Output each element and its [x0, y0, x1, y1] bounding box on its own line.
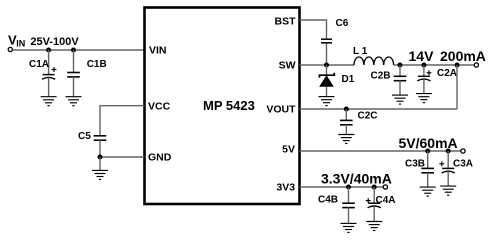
ground C4B [341, 223, 357, 232]
wire junction to ground [99, 157, 101, 170]
capacitor C1A [29, 50, 56, 97]
capacitor C4B [318, 187, 355, 223]
svg-text:C6: C6 [336, 18, 349, 29]
wire SW [300, 64, 355, 66]
inductor L1 [353, 46, 394, 65]
node junction C1B [71, 48, 76, 53]
svg-text:3.3V/40mA: 3.3V/40mA [321, 170, 392, 186]
capacitor C6 [321, 18, 349, 65]
op-amp U1 MP5423 IC box [145, 8, 300, 205]
ground C5 [92, 170, 108, 179]
svg-text:C2C: C2C [358, 111, 378, 122]
svg-text:IN: IN [16, 38, 25, 48]
svg-text:5V/60mA: 5V/60mA [399, 135, 458, 151]
node junction C2C [344, 107, 349, 112]
svg-text:VIN: VIN [149, 45, 167, 57]
svg-text:200mA: 200mA [440, 48, 486, 64]
node junction C4B [346, 185, 351, 190]
node junction C5/GND [98, 155, 103, 160]
capacitor C1B [67, 50, 107, 97]
terminal 14V output [474, 63, 478, 67]
ground C2A [416, 94, 432, 103]
ground D1 [319, 97, 335, 106]
wire VIN input to IC [13, 49, 145, 51]
node junction C3B [425, 149, 430, 154]
svg-text:C5: C5 [78, 131, 91, 142]
capacitor C2A [417, 65, 457, 93]
capacitor C3A [439, 151, 473, 186]
svg-text:25V-100V: 25V-100V [30, 36, 79, 48]
svg-text:L 1: L 1 [353, 46, 368, 57]
node junction C1A [46, 48, 51, 53]
svg-text:VCC: VCC [148, 100, 171, 112]
capacitor C5 [78, 131, 106, 157]
capacitor C2B [371, 65, 407, 95]
terminal 5V output [461, 149, 465, 153]
svg-text:C1A: C1A [29, 59, 49, 70]
ground C2C [338, 135, 354, 144]
svg-text:VOUT: VOUT [266, 104, 296, 116]
ground C4A [366, 222, 382, 231]
node junction C3A [446, 149, 451, 154]
svg-text:3V3: 3V3 [276, 182, 295, 194]
wire 5V output [300, 150, 461, 152]
wire L1 to output [394, 64, 475, 66]
diode D1 (schottky) [319, 65, 354, 96]
wire 14V rail down to VOUT [456, 65, 458, 109]
capacitor C2C [340, 109, 378, 134]
node junction SW/D1/C6 [324, 63, 329, 68]
wire 3V3 output [300, 186, 384, 188]
wire GND pin [100, 156, 145, 158]
ground C3A [440, 186, 456, 195]
node junction C4A [372, 185, 377, 190]
wire VOUT [300, 108, 458, 110]
svg-text:C3A: C3A [453, 159, 473, 170]
terminal 3V3 output [383, 185, 387, 189]
label VIN [8, 33, 25, 49]
ground C1A [41, 97, 57, 106]
ground C1B [66, 97, 82, 106]
wire BST to C6 [300, 20, 327, 39]
capacitor C4A [366, 187, 396, 221]
wire VCC to C5 [100, 106, 145, 136]
terminal VIN input [8, 47, 12, 51]
svg-text:C3B: C3B [405, 159, 425, 170]
svg-text:C2A: C2A [437, 68, 457, 79]
node junction C2A [421, 63, 426, 68]
svg-text:C4B: C4B [318, 195, 338, 206]
svg-text:D1: D1 [342, 74, 355, 85]
node junction VOUT feedback [455, 63, 460, 68]
ground C2B [392, 95, 408, 104]
svg-text:C2B: C2B [371, 70, 391, 81]
svg-text:GND: GND [148, 152, 172, 164]
ground C3B [420, 187, 436, 196]
svg-text:BST: BST [275, 15, 297, 27]
svg-text:C1B: C1B [87, 59, 107, 70]
svg-text:MP 5423: MP 5423 [203, 98, 255, 113]
svg-text:5V: 5V [282, 144, 295, 156]
svg-text:SW: SW [279, 60, 296, 72]
capacitor C3B [405, 151, 434, 187]
svg-text:14V: 14V [409, 48, 435, 64]
svg-text:C4A: C4A [376, 195, 396, 206]
node junction C2B [398, 63, 403, 68]
